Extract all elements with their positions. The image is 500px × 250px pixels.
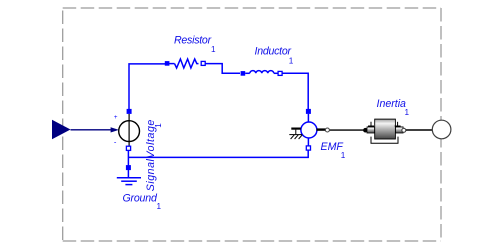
wire: signalvoltage top to resistor xyxy=(129,64,166,110)
signal input connector (RealInput arrow) xyxy=(52,120,119,139)
EMF flange_b connector xyxy=(325,128,329,132)
svg-text:Inertia: Inertia xyxy=(377,98,407,110)
wire: resistor to inductor (step down) xyxy=(205,64,240,74)
voltage source U1 (SignalVoltage) xyxy=(114,109,140,150)
svg-text:1: 1 xyxy=(341,151,346,160)
enclosing dashed model border xyxy=(63,8,441,241)
inertia J1 xyxy=(367,119,403,143)
svg-text:1: 1 xyxy=(157,202,162,211)
label Resistor1 xyxy=(174,35,216,54)
right bearing mark xyxy=(395,125,401,127)
ground G1 xyxy=(117,165,141,185)
label EMF1 xyxy=(321,141,346,160)
svg-text:Inductor: Inductor xyxy=(255,45,292,57)
label SignalVoltage1 xyxy=(145,119,163,191)
bearing bracket xyxy=(371,137,398,144)
label Ground1 xyxy=(123,193,162,211)
flange_b connector (white circle on border) xyxy=(432,120,451,139)
svg-text:SignalVoltage: SignalVoltage xyxy=(145,119,157,191)
svg-text:Resistor: Resistor xyxy=(174,35,212,47)
EMF M1 xyxy=(301,109,317,150)
wire: inductor to EMF top xyxy=(282,73,308,110)
shaft wire: inertia to flange connector xyxy=(402,128,433,132)
resistor R1 xyxy=(165,59,205,68)
svg-text:-: - xyxy=(114,137,117,146)
label Inertia1 xyxy=(377,98,410,117)
svg-text:1: 1 xyxy=(154,123,163,128)
bottom wire: EMF bottom to signalvoltage bottom xyxy=(128,151,308,158)
left bearing mark xyxy=(368,125,374,127)
svg-text:Ground: Ground xyxy=(123,193,158,205)
svg-text:1: 1 xyxy=(405,108,410,117)
svg-text:1: 1 xyxy=(211,45,216,54)
shaft wire: EMF flange to inertia xyxy=(317,128,368,133)
svg-text:1: 1 xyxy=(289,57,294,66)
junction dot at inertia flange_a xyxy=(363,128,368,133)
EMF support (fixed housing) xyxy=(289,129,302,139)
svg-text:+: + xyxy=(114,114,118,121)
inductor L1 xyxy=(241,71,283,76)
label Inductor1 xyxy=(255,45,294,65)
wire: signalvoltage bottom to ground xyxy=(127,151,129,167)
